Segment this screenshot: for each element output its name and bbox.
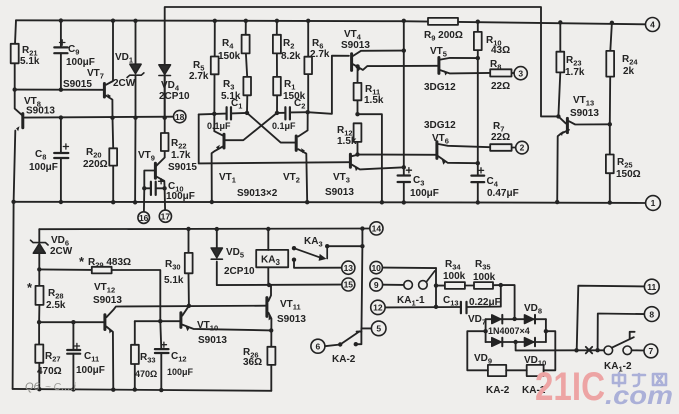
wire terminal 12 to C13 [385,306,460,308]
wire x404 vertical (rail to C3) [403,21,405,176]
wire terminal 9 line [383,284,404,286]
relay coil KA3 box [256,250,288,267]
svg-text:C8: C8 [35,149,46,162]
svg-text:R35: R35 [475,259,491,272]
wire VT9 emitter / C10 right [156,177,165,211]
resistor R27 [35,345,43,363]
svg-text:2.7k: 2.7k [310,49,330,60]
wire R24 branch [610,23,612,51]
svg-text:S9013: S9013 [93,295,122,306]
wire VT1 emitter [212,146,223,202]
svg-text:3: 3 [518,68,523,78]
svg-text:2: 2 [520,143,525,153]
resistor R6 [304,57,312,74]
plus C4 [478,168,483,173]
wire lower-left column x39 [38,229,40,242]
wire cross diagonal to VT2 base [247,113,295,143]
resistor R5 [211,57,219,75]
contact KA3 fixed drop [326,246,328,258]
svg-text:100μF: 100μF [66,57,95,68]
terminal 11 [644,279,659,294]
capacitor C4 [471,175,484,177]
contact KA3 arm arrowhead [319,254,327,261]
wire VT13 emitter [557,130,569,202]
wire lower ground rail [13,389,272,391]
svg-text:14: 14 [372,224,382,234]
svg-text:1: 1 [651,198,656,208]
terminal 14 [370,222,383,235]
transistors [16,54,567,334]
wire KA3 coil stems [267,229,269,250]
capacitors [54,47,484,353]
svg-text:C13: C13 [443,295,459,308]
resistor R34 (horizontal) [445,282,465,289]
wire bridge right side [545,319,547,342]
wire x436 vertical [435,268,437,307]
wire bridge bottom side [486,341,546,343]
svg-text:3DG12: 3DG12 [424,120,456,131]
svg-text:R20: R20 [86,147,102,160]
svg-text:C4: C4 [487,176,499,189]
wire KA-2 fixed L [356,328,362,344]
svg-text:150Ω: 150Ω [616,169,641,180]
wire bridge bottom middle to KA1-2 line [516,342,604,350]
svg-text:~ C….i: ~ C….i [45,382,77,393]
wire R29 line from VD6/R28 node [39,268,92,271]
terminal 18 [174,110,186,122]
wire VT6 collector to R7 [438,144,490,147]
svg-text:2CW: 2CW [50,246,73,257]
wire bridge top side [486,318,546,320]
wire node-18 rail y117.6 [25,116,174,119]
svg-text:S9013: S9013 [325,187,354,198]
svg-text:100μF: 100μF [76,365,105,376]
wire R34-R35 line [436,285,445,287]
svg-text:VT9: VT9 [138,150,155,163]
svg-text:R33: R33 [140,352,156,365]
wire R5 branch to VT1 collector [214,21,216,57]
terminal 13 [342,261,355,274]
wire R10 branch [477,22,479,32]
transistor VT3 S9013 [350,154,358,171]
wire terminal 6 to KA-2 [325,345,340,347]
resistor R4 [242,35,250,54]
wire VT11 collector [268,285,271,301]
wire x362 vertical rail to KA-2 contact [361,229,364,329]
svg-text:0.1μF: 0.1μF [272,121,296,131]
transistor VT2 S9013 [296,136,305,153]
svg-text:VT12: VT12 [94,282,115,295]
diode VD6 zener 2CW [30,240,48,253]
resistor R8 (horizontal) [490,69,511,76]
component labels lower section [27,235,632,396]
capacitor C2 [284,107,286,119]
svg-text:KA-2: KA-2 [486,385,510,396]
svg-text:9: 9 [374,280,379,290]
wire terminal 11 line [577,286,645,351]
wire KA-2 contact to terminal 5 [362,327,372,329]
svg-text:R28: R28 [48,288,64,301]
svg-text:21IC: 21IC [535,365,605,409]
wire R30 branch [188,229,190,253]
wire KA3 fixed contact to x362 vertical [327,245,362,247]
wire R4-R3 branch [245,21,247,35]
component labels multivibrator [189,29,384,199]
wire VT1 collector node to VT3 base (long) [199,114,349,163]
wire VT11 emitter to R26 [268,313,271,347]
terminal 2 [516,141,529,154]
wire R11 branch [357,67,359,83]
svg-text:2CW: 2CW [113,78,136,89]
svg-text:Q6: Q6 [25,381,41,393]
svg-text:100μF: 100μF [29,162,58,173]
svg-text:VT13: VT13 [573,95,594,108]
svg-text:100k: 100k [473,272,496,283]
wire x mark on KA1-2 line [586,347,592,354]
svg-text:R9 200Ω: R9 200Ω [424,30,463,43]
svg-text:VD1: VD1 [115,52,133,65]
svg-text:S9013: S9013 [277,314,306,325]
svg-text:VT1: VT1 [219,172,236,185]
svg-text:VT11: VT11 [280,299,301,312]
transistor VT7 S9015 [104,84,111,99]
resistor R28 [36,286,44,305]
svg-text:220Ω: 220Ω [83,159,108,170]
svg-text:R30: R30 [165,259,181,272]
wire KA-1 coil to bridge right [544,331,556,370]
wire VT4 emitter to VT5 base [353,64,438,70]
watermark dianziwang glyph blocks [613,373,666,386]
wire VT4 collector [353,51,404,56]
relay coil KA-2 box [488,365,506,376]
wire R11/R12 node to ground drop [358,114,382,202]
terminal circles [138,18,661,358]
svg-text:VT5: VT5 [430,46,447,59]
svg-text:7: 7 [649,346,654,356]
wire VT5 emitter to R8 [440,70,490,73]
transistor VT1 S9013 [216,134,224,150]
svg-text:1.7k: 1.7k [565,67,585,78]
svg-text:R2: R2 [283,38,294,51]
wire C1 left node [199,113,227,116]
resistor R22 [161,133,169,151]
svg-text:*: * [27,280,33,295]
wire VT2 collector [298,112,308,136]
wire R35 right to bridge top [501,285,515,319]
wire R20 branch [112,118,115,149]
wire C2 right to R6 node [290,111,308,113]
capacitor C11 [67,349,80,351]
resistors (boxes) [11,18,614,365]
svg-text:R25: R25 [617,157,633,170]
svg-text:C3: C3 [413,175,424,188]
wire bridge left side [485,319,487,342]
svg-text:VT2: VT2 [283,172,300,185]
svg-text:5: 5 [376,324,381,334]
svg-text:C11: C11 [84,351,99,364]
wire lower +rail y229 to terminal 14 [39,228,370,231]
svg-text:3DG12: 3DG12 [424,82,456,93]
svg-text:470Ω: 470Ω [135,369,157,379]
terminal 4 [646,18,660,32]
svg-text:R29 483Ω: R29 483Ω [88,257,131,270]
svg-text:18: 18 [175,112,185,122]
svg-text:R22: R22 [171,138,187,151]
svg-text:R24: R24 [622,54,638,67]
svg-text:KA1-1: KA1-1 [397,295,425,308]
transistor VT11 S9013 [267,298,272,321]
svg-text:2.5k: 2.5k [46,300,66,311]
transistor VT10 S9013 [181,313,189,332]
wire KA3 moving contact to terminal 13 [294,260,342,268]
wire R33 branch [135,320,161,322]
svg-text:2.7k: 2.7k [189,71,209,82]
resistor R35 (horizontal) [474,282,493,289]
svg-text:S9013: S9013 [198,335,227,346]
svg-text:S9015: S9015 [63,79,92,90]
svg-text:4: 4 [650,20,655,30]
svg-text:0.1μF: 0.1μF [207,121,231,131]
svg-text:2k: 2k [623,66,635,77]
svg-text:22Ω: 22Ω [491,132,510,143]
contact KA1-1 terminals [404,281,413,290]
wire R8 to terminal 3 [512,72,515,74]
svg-text:R8: R8 [490,59,501,72]
svg-text:C12: C12 [171,351,187,364]
svg-text:S9013×2: S9013×2 [237,188,278,199]
plus C8 [63,144,68,149]
diode VD4 2CP10 [159,65,171,76]
svg-text:R1: R1 [284,79,295,92]
svg-text:KA1-2: KA1-2 [604,361,632,374]
terminal 7 [644,344,658,358]
wire C1 right to cross [231,112,247,115]
resistor R11 [354,83,362,100]
capacitor polarity plus signs [60,40,484,349]
capacitor C9 (electrolytic) [54,46,67,48]
wire VT12 base line [39,321,103,323]
svg-text:R34: R34 [445,259,461,272]
svg-text:.com: .com [605,380,673,410]
resistor R23 [556,52,564,73]
wire R25 lower stem [609,173,611,202]
transistor VT8 S9013 [16,114,23,132]
capacitor C1 [226,107,228,119]
svg-text:S9015: S9015 [168,162,197,173]
capacitor C10 (horizontal electrolytic) [150,182,152,195]
svg-text:2CP10: 2CP10 [224,266,255,277]
svg-text:470Ω: 470Ω [37,366,62,377]
svg-text:*: * [79,254,85,269]
resistor R33 [131,345,139,364]
diode VD1 zener 2CW [127,64,144,77]
contact KA1-1 arm [426,271,435,282]
svg-text:S9013: S9013 [341,40,370,51]
svg-text:12: 12 [373,303,383,313]
svg-text:R3: R3 [223,79,234,92]
svg-text:S9013: S9013 [26,106,55,117]
wire KA-2 moving arm [340,331,359,344]
wire KA1-2 moving arm [612,337,634,348]
wire R2-R1 branch [276,21,278,35]
relay coil KA-1 box [527,365,544,376]
wire KA1-2 right to terminal 7 [632,349,644,351]
wire VD4 stem lower [164,76,166,118]
terminal 6 [311,339,325,353]
plus C3 [406,168,411,173]
wire VT13 base [558,116,565,123]
wire VT5 collector [440,58,478,60]
transistor VT4 S9013 [352,54,361,72]
wire VT10 collector [182,306,189,316]
terminal 5 [371,321,386,336]
resistor R29 (horizontal) [92,267,112,274]
svg-text:8.2k: 8.2k [281,51,301,62]
wire R22 branch [164,118,166,133]
plus C11 [74,343,79,348]
svg-text:16: 16 [139,213,149,223]
resistor R1 [273,77,281,95]
wire VT3 emitter [352,165,404,170]
transistor VT9 S9015 [155,163,163,183]
diode VD8 (bridge top-right) [525,315,536,324]
wire R7 to terminal 2 [512,147,516,149]
resistor R26 [267,347,275,365]
wire R12 lower stem [357,142,359,155]
diode VD5 2CP10 [211,248,222,259]
capacitor C12 [155,348,169,350]
svg-text:VD8: VD8 [524,303,542,316]
wire KA1-2 fixed hook [630,332,635,339]
wire VD5 branch to terminal 15 line [216,229,218,248]
svg-text:43Ω: 43Ω [491,45,510,56]
resistor R25 [606,155,614,174]
wire R6 branch [307,21,309,57]
svg-text:C9: C9 [68,44,79,57]
svg-text:2CP10: 2CP10 [159,91,190,102]
diode VD10 (bridge bottom-right) [525,338,536,347]
resistor R24 [606,51,614,77]
svg-text:R27: R27 [45,351,61,364]
resistor R10 [474,32,482,50]
plus C9 [60,40,65,45]
svg-text:100μF: 100μF [166,191,195,202]
wire C8 branch [60,118,62,153]
svg-text:0.47μF: 0.47μF [487,188,519,199]
svg-text:15: 15 [344,280,354,290]
terminal 17 [159,210,171,222]
relay coils and contacts [256,246,631,376]
wire terminal 16 stem [143,188,145,212]
wire +V top rail [16,20,646,24]
wire VT10 emitter to VT11 emitter [182,325,271,331]
wire feedback top box (node 18 to VT13 base) [165,7,559,118]
component labels upper-left [20,44,197,202]
terminal 15 [342,278,355,291]
wire VT9 base to C10 left [144,171,154,189]
svg-text:C1: C1 [231,98,242,111]
svg-text:13: 13 [344,263,354,273]
wire VD1 branch [135,21,137,64]
wire KA-2 coil to KA-1 coil [506,369,527,371]
terminal 8 [644,307,659,322]
transistor VT6 3DG12 [437,142,446,165]
wire VT2 emitter [298,149,307,202]
resistor R2 [273,35,281,54]
terminal numbers [139,20,657,356]
wire C11 branch [72,322,74,350]
wire VT10 base from R29 node [160,320,180,322]
terminal 1 [646,196,661,211]
wire VT4 base from C2/R6 node [308,56,349,114]
svg-text:5.1k: 5.1k [20,56,40,67]
contact KA1-2 terminals [604,346,613,355]
wire VT13 collector to R24/R25 node [569,121,610,124]
wire bridge left to KA-2 coil [467,331,488,370]
transistor VT5 3DG12 [439,58,448,76]
svg-text:1.7k: 1.7k [171,150,191,161]
svg-text:VT10: VT10 [197,320,218,333]
capacitor C3 [398,174,410,176]
capacitor C13 (vertical plates) [460,302,462,313]
wire VT12 emitter [106,327,113,390]
svg-text:R23: R23 [566,55,582,68]
capacitor C8 [54,152,68,154]
svg-text:VT3: VT3 [333,172,350,185]
transistor VT13 S9013 [560,118,568,136]
svg-text:S9013: S9013 [570,108,599,119]
svg-text:6: 6 [316,341,321,351]
resistor R7 (horizontal) [490,144,511,151]
wire cross diagonal to VT1 base [226,113,278,140]
svg-text:1.5k: 1.5k [364,95,384,106]
contact KA3 moving arm [294,248,321,258]
svg-text:150k: 150k [218,51,241,62]
wire terminal 8 line [598,314,645,351]
svg-text:R4: R4 [222,38,234,51]
resistor R30 [185,253,193,273]
svg-text:VD9: VD9 [474,353,492,366]
resistor R9 (200 ohm, horizontal on rail) [428,18,458,25]
wire VT6 emitter [438,156,478,163]
diode VD7 (bridge top-left) [492,315,503,324]
wire terminal 10 line [382,267,436,270]
wire VT7 collector [106,21,113,85]
wire R23 branch [559,22,561,51]
wire C12 branch [160,321,161,349]
terminal 16 [138,212,150,224]
wire C13 right up to R35 node [467,285,501,307]
wire C9 branch [60,21,62,48]
svg-text:VD7: VD7 [468,314,486,327]
svg-text:100k: 100k [443,271,466,282]
wire ground rail (terminal 1 net) [14,202,646,203]
plus C12 [161,342,166,347]
transistor VT12 S9013 [105,315,112,334]
wire VT7 base node y90 [15,89,103,91]
resistor R3 [243,77,251,95]
wire VT3 collector to VT6 base [352,155,437,157]
svg-text:1N4007×4: 1N4007×4 [488,326,530,336]
svg-text:KA-2: KA-2 [332,354,356,365]
svg-text:VT6: VT6 [432,133,449,146]
svg-text:1.5k: 1.5k [337,136,357,147]
resistor R20 [109,148,117,165]
svg-text:0.22μF: 0.22μF [469,297,501,308]
svg-text:22Ω: 22Ω [491,81,510,92]
svg-text:36Ω: 36Ω [243,357,262,368]
diodes [30,64,535,346]
